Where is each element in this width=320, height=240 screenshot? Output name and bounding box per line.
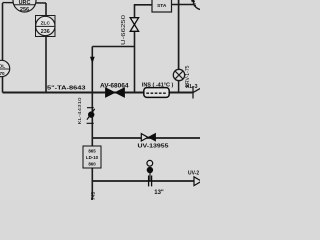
svg-text:5"-TA-8643: 5"-TA-8643 [47, 86, 86, 92]
svg-text:UV-13955: UV-13955 [138, 144, 169, 150]
svg-text:U-66250: U-66250 [121, 15, 127, 45]
svg-text:STA: STA [157, 3, 167, 9]
svg-text:236: 236 [41, 29, 50, 35]
svg-text:LD-10: LD-10 [86, 155, 99, 160]
svg-text:749: 749 [91, 192, 97, 200]
svg-text:URC: URC [19, 0, 31, 6]
svg-text:13": 13" [154, 190, 164, 196]
svg-text:DL: DL [0, 64, 5, 69]
svg-text:ZLC: ZLC [41, 21, 51, 27]
svg-text:UV-2: UV-2 [188, 171, 199, 177]
svg-text:860: 860 [88, 162, 96, 167]
svg-text:5: 5 [193, 3, 196, 9]
svg-text:KL-44310: KL-44310 [77, 97, 83, 124]
svg-text:865: 865 [88, 149, 96, 154]
svg-text:256: 256 [20, 7, 29, 13]
svg-text:70: 70 [0, 71, 5, 76]
svg-text:KL-3: KL-3 [186, 84, 198, 90]
